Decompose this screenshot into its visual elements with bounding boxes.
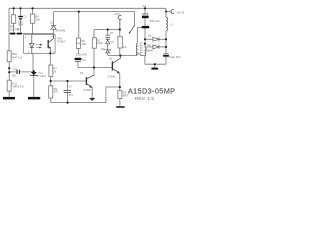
node dot collector bus — [119, 54, 121, 56]
diode Db — [153, 45, 159, 49]
transistor Q1 emitter arrow — [117, 71, 120, 74]
svg-text:220u 63V: 220u 63V — [76, 53, 88, 57]
svg-text:10n: 10n — [12, 74, 17, 78]
wire left spine — [8, 8, 10, 97]
capacitor C12 — [17, 70, 19, 74]
optocoupler phototransistor — [48, 35, 53, 54]
svg-text:PC817: PC817 — [57, 40, 66, 44]
wire L1 output column — [165, 8, 167, 64]
node dot output cap top — [165, 46, 167, 48]
svg-text:Q2: Q2 — [80, 71, 84, 75]
terminal +15V circle — [118, 16, 121, 20]
wire C1 leads — [20, 8, 22, 32]
resistor R6 mid line — [76, 42, 80, 44]
diode Da — [153, 37, 159, 41]
capacitor C7 — [64, 91, 71, 93]
capacitor C3 — [142, 14, 149, 18]
node dot rail A C3 — [144, 7, 146, 9]
wire ground stem right — [154, 64, 156, 67]
optocoupler emitter arrow — [49, 47, 52, 49]
svg-text:1N4148: 1N4148 — [56, 29, 66, 33]
capacitor C7 label — [68, 85, 73, 97]
resistor R12 label — [10, 24, 20, 31]
ground bar bottom left — [3, 97, 15, 100]
wire mid rail — [94, 29, 120, 31]
wire R9 top lead — [50, 81, 52, 86]
wire Da anode — [145, 38, 153, 40]
wire Db cathode — [159, 46, 166, 48]
ground bar left 1 — [10, 33, 15, 35]
resistor R5 — [118, 90, 122, 98]
node dot C7 top — [66, 80, 68, 82]
wire top rail A — [9, 7, 166, 9]
svg-text:TL431: TL431 — [38, 74, 46, 78]
svg-text:200k: 200k — [97, 41, 103, 45]
svg-text:SB540: SB540 — [146, 50, 154, 53]
wire +15V terminal stub — [119, 19, 121, 29]
wire rail B — [54, 12, 135, 26]
optocoupler label — [57, 36, 66, 43]
wire C12 branch — [9, 71, 33, 73]
svg-text:10k: 10k — [35, 18, 40, 22]
node dot secondary top — [144, 38, 146, 40]
capacitor C1 label — [17, 15, 28, 32]
svg-text:C1906: C1906 — [108, 74, 116, 78]
node dot secondary Db tap — [144, 43, 146, 45]
node dot rail A R4 — [31, 7, 33, 9]
resistor R7 — [49, 65, 53, 77]
svg-text:D6: D6 — [147, 43, 151, 47]
wire Db anode — [145, 46, 153, 48]
wire secondary return — [145, 56, 166, 65]
ground bar left 2 — [17, 33, 22, 35]
ground T symbol R5 — [116, 106, 124, 108]
node dot spine lower — [8, 71, 10, 73]
node dot ground right — [154, 63, 156, 65]
transistor Q2 emitter arrow — [89, 85, 92, 88]
node dot Q1 emitter — [119, 86, 121, 88]
terminal +9V circle — [171, 10, 174, 14]
wire Q1 emitter down — [119, 74, 121, 91]
svg-text:A15D3-05MP: A15D3-05MP — [128, 87, 176, 96]
svg-text:100u 16V: 100u 16V — [169, 55, 181, 59]
resistor R6 — [76, 38, 80, 49]
svg-text:C7: C7 — [68, 85, 72, 89]
wire C7 column — [67, 81, 69, 103]
inductor L1 — [166, 17, 168, 31]
node dot mid rail C5 — [107, 28, 109, 30]
transistor Q2 C1384 — [86, 75, 94, 88]
wire R7 column — [49, 54, 51, 81]
optocoupler U1 PC817 box — [24, 35, 55, 54]
wire transformer primary top lead — [137, 28, 141, 44]
capacitor C1 — [18, 16, 23, 20]
transformer T1 secondary winding — [145, 48, 146, 56]
svg-text:D2: D2 — [50, 21, 54, 25]
wire R6 column — [77, 12, 79, 54]
wire D2 column — [53, 12, 55, 35]
wire R1 column — [119, 19, 121, 55]
node dot L1 bottom — [165, 38, 167, 40]
svg-text:C5: C5 — [110, 31, 114, 35]
svg-text:C12: C12 — [12, 67, 17, 71]
svg-text:400V: 400V — [18, 24, 24, 27]
wire R2 column — [93, 30, 95, 68]
wire R12 leads — [13, 8, 15, 32]
optocoupler LED — [30, 35, 35, 54]
resistor R7 label — [53, 66, 57, 73]
svg-text:+9V M: +9V M — [176, 11, 185, 15]
resistor R2 label — [97, 39, 103, 46]
transformer T1 core — [140, 43, 142, 57]
wire y32 bus — [9, 33, 54, 35]
resistor R9 label — [54, 87, 59, 94]
wire base bus Q1 — [78, 67, 112, 69]
capacitor C5 — [105, 35, 110, 37]
node dot rail B R6 — [78, 11, 80, 13]
wire emitter loop — [51, 87, 120, 103]
capacitor C6 output — [163, 54, 169, 57]
svg-text:C1384: C1384 — [83, 88, 91, 92]
wire Q2 collector — [93, 68, 95, 76]
node dot R2 Q2 collector — [93, 66, 95, 68]
svg-text:+15V: +15V — [113, 12, 120, 16]
zener diode D1 — [106, 40, 110, 44]
node dot C7 bottom — [66, 102, 68, 104]
wire Q2 emitter down — [91, 88, 93, 98]
wire C4 bottom lead — [77, 61, 79, 67]
wire collector bus y55 — [108, 55, 145, 57]
svg-text:C4: C4 — [82, 58, 86, 62]
ground bar right — [151, 68, 158, 70]
resistor R12 — [11, 15, 15, 23]
resistor R5 label — [123, 91, 128, 98]
svg-text:Q1: Q1 — [109, 57, 113, 61]
node dot spine upper — [8, 67, 10, 69]
wire base bus Q2 — [51, 80, 87, 82]
node dot R7 R9 base bus — [50, 80, 52, 82]
svg-text:4M34 1%: 4M34 1% — [12, 84, 24, 88]
wire output terminal stub — [166, 11, 171, 13]
resistor R2 — [92, 38, 96, 48]
capacitor C4 — [75, 58, 82, 62]
resistor R10 — [7, 51, 11, 62]
resistor R6 label — [81, 39, 86, 46]
svg-text:REV. 1.5: REV. 1.5 — [135, 96, 154, 102]
zener diode D4 — [104, 49, 111, 53]
TL431 shunt regulator TL1 — [30, 72, 38, 76]
black bar node C3 bottom — [142, 26, 150, 28]
node dot rail A C1 — [19, 7, 21, 9]
rail B arrow into transformer — [129, 26, 135, 35]
node dot opto emitter — [49, 52, 51, 54]
optocoupler light arrows — [36, 44, 42, 49]
node dot rail A R12 — [13, 7, 15, 9]
resistor R11 — [7, 80, 11, 91]
resistor R4 label — [35, 15, 40, 22]
transformer T1 primary winding — [136, 43, 137, 55]
wire secondary diode column — [144, 39, 146, 47]
wire Da cathode to L1 node — [159, 38, 166, 40]
wire LED TL431 column — [32, 53, 35, 97]
wire C3 column — [144, 8, 146, 39]
resistor R11 label — [12, 81, 24, 88]
ground bar bottom TL431 — [28, 97, 40, 100]
node dot TL431 top — [33, 70, 35, 72]
svg-text:100: 100 — [81, 42, 86, 46]
resistor R1 — [118, 36, 122, 48]
node dot rail A L1 — [165, 11, 167, 13]
svg-text:470: 470 — [54, 90, 59, 94]
resistor R9 — [49, 86, 53, 98]
svg-text:4M7 1%: 4M7 1% — [12, 55, 22, 59]
svg-text:300u HV: 300u HV — [149, 19, 160, 23]
resistor R4 — [31, 14, 35, 23]
resistor R1 label — [123, 46, 128, 49]
wire hop over — [137, 54, 141, 56]
svg-text:47u: 47u — [69, 93, 74, 97]
svg-text:D1: D1 — [111, 40, 115, 44]
node dot mid rail R1 — [119, 28, 121, 30]
wire R5 ground stem — [119, 99, 121, 107]
capacitor C12 label — [12, 67, 18, 78]
svg-text:D5: D5 — [148, 34, 152, 38]
diode D2 1N4148 — [51, 26, 56, 30]
svg-text:L1: L1 — [170, 22, 173, 26]
ground arrow Q2 — [89, 98, 96, 101]
TL431 label — [38, 71, 46, 78]
svg-text:D4: D4 — [101, 47, 105, 51]
resistor R10 label — [12, 52, 22, 59]
transistor Q1 C1906 — [112, 56, 120, 74]
svg-text:C1: C1 — [23, 15, 27, 19]
svg-text:2kV: 2kV — [17, 27, 22, 31]
wire R4 leads — [32, 8, 34, 34]
wire C5 zener column — [107, 30, 109, 56]
